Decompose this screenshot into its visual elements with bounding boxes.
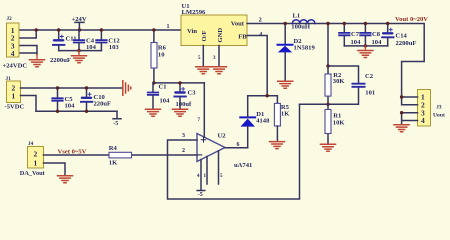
svg-text:1N5819: 1N5819	[294, 45, 316, 52]
svg-text:4148: 4148	[256, 118, 270, 125]
node junction output ground	[364, 44, 367, 47]
svg-text:O/F: O/F	[201, 31, 208, 42]
wire filter bottom rail	[59, 50, 102, 52]
svg-text:DA_Vout: DA_Vout	[20, 170, 46, 177]
node junction R2 rail	[326, 22, 329, 25]
pin number 2	[182, 148, 185, 154]
pin number 7	[198, 118, 201, 123]
svg-text:4: 4	[11, 49, 15, 58]
svg-text:C2: C2	[365, 73, 374, 80]
svg-text:-5: -5	[113, 121, 118, 127]
wire C7 C8 bottom rail	[344, 45, 387, 47]
regulator U1 LM2596	[181, 3, 247, 46]
svg-text:10K: 10K	[333, 120, 346, 127]
ground input filter	[72, 51, 87, 63]
wire J1 top rail	[21, 87, 123, 89]
svg-text:L1: L1	[293, 12, 301, 19]
svg-text:1K: 1K	[109, 160, 118, 167]
svg-text:6: 6	[237, 142, 240, 148]
pin number 4	[197, 174, 200, 179]
wire op-amp output pin6	[225, 147, 248, 149]
ground sideways J1	[123, 81, 131, 96]
svg-text:Vout 0~20V: Vout 0~20V	[395, 16, 428, 23]
capacitor C1 104	[148, 83, 170, 109]
svg-text:J1: J1	[6, 76, 12, 82]
svg-text:R4: R4	[109, 145, 118, 152]
pin number 5	[220, 174, 223, 179]
capacitor C10 220uF	[81, 88, 111, 111]
wire J3 pin1 pin2	[402, 97, 418, 105]
ground below D2	[278, 81, 293, 88]
pin number 1	[204, 174, 207, 179]
svg-text:3: 3	[182, 133, 185, 139]
ground output filter	[358, 46, 373, 58]
svg-text:J2: J2	[7, 16, 13, 22]
wire J3 pin3 pin4 to ground	[402, 113, 418, 124]
node junction C8	[364, 22, 367, 25]
wire FB net	[247, 36, 277, 104]
svg-text:C3: C3	[188, 90, 197, 97]
resistor R5 1K	[274, 103, 290, 140]
svg-text:+24V: +24V	[72, 16, 87, 23]
node junction C2 top	[326, 64, 329, 67]
ground below U1 pin3	[212, 67, 227, 74]
wire J4 pin2 to R4	[44, 154, 110, 156]
svg-text:Vin: Vin	[187, 28, 197, 35]
wire J1 bottom rail	[36, 110, 117, 112]
svg-text:GND: GND	[217, 28, 224, 43]
svg-text:C7: C7	[351, 31, 360, 38]
svg-text:2: 2	[182, 148, 185, 154]
svg-text:1: 1	[167, 24, 170, 30]
svg-text:LM2596: LM2596	[182, 9, 207, 16]
ground below J4	[58, 176, 73, 183]
svg-text:C1: C1	[159, 84, 167, 91]
svg-text:100uH: 100uH	[291, 24, 311, 31]
svg-text:30K: 30K	[333, 78, 346, 85]
connector J2	[7, 16, 20, 58]
svg-text:220uF: 220uF	[94, 101, 112, 108]
wire inverting input	[132, 154, 198, 156]
svg-text:J3: J3	[436, 105, 442, 111]
node junction C12	[100, 28, 103, 31]
svg-text:103: 103	[109, 44, 120, 51]
pin number 3	[182, 133, 185, 139]
svg-text:-5: -5	[198, 192, 203, 198]
node junction R6 top	[152, 28, 155, 31]
svg-text:104: 104	[65, 103, 76, 110]
ground below J2	[30, 55, 45, 67]
diode D2 1N5819	[278, 24, 316, 81]
wire J4 pin1 to ground	[44, 163, 66, 175]
inductor L1 100uH	[291, 12, 315, 30]
capacitor C11 2200uF	[50, 30, 77, 64]
node junction filter ground	[77, 49, 80, 52]
pin number 1 U1	[167, 24, 170, 30]
svg-text:uA741: uA741	[234, 162, 252, 169]
node junction C10 top	[85, 86, 88, 89]
svg-text:C14: C14	[396, 33, 408, 40]
wire op-amp pin5 stub	[218, 151, 220, 184]
wire J1 pin1 jog	[21, 96, 37, 112]
node junction D2	[284, 22, 287, 25]
capacitor C5 104	[52, 88, 75, 111]
node junction C10 bottom	[85, 110, 88, 113]
svg-text:U2: U2	[218, 133, 227, 140]
node junction J3 pin1	[400, 95, 403, 98]
wire +24V input rail	[19, 29, 181, 31]
resistor R4 1K	[109, 145, 132, 167]
capacitor C7 104	[339, 24, 361, 47]
svg-text:1: 1	[34, 159, 38, 168]
wire U1 pin3 stub	[218, 46, 220, 67]
wire feedback loop pin3	[168, 104, 300, 199]
svg-text:104: 104	[160, 98, 171, 105]
node junction +24V	[78, 28, 81, 31]
svg-text:101: 101	[365, 90, 375, 97]
node junction divider tap	[326, 103, 329, 106]
svg-text:C8: C8	[372, 31, 381, 38]
svg-text:Uout: Uout	[433, 113, 445, 119]
resistor R6 10	[151, 30, 167, 83]
connector J3	[418, 90, 445, 127]
diode D1 4148	[240, 96, 270, 148]
svg-text:2200uF: 2200uF	[396, 40, 417, 47]
pin number 5	[198, 56, 201, 61]
svg-text:2: 2	[259, 17, 262, 23]
ground below R1	[321, 144, 336, 151]
svg-text:Vout: Vout	[231, 21, 245, 28]
svg-text:2: 2	[34, 150, 38, 159]
net label +24VDC	[3, 62, 28, 69]
svg-text:J4: J4	[28, 141, 34, 147]
svg-text:10: 10	[158, 52, 165, 59]
pin number 4	[259, 32, 262, 38]
ground below J3	[394, 125, 409, 132]
capacitor C2 101	[328, 66, 375, 104]
node junction C5 top	[56, 86, 59, 89]
svg-text:1: 1	[12, 92, 16, 101]
svg-text:R6: R6	[158, 45, 167, 52]
wire op-amp pin7 supply stub	[203, 83, 205, 137]
resistor R2 30K	[325, 24, 345, 105]
node junction J2 rail	[35, 28, 38, 31]
power +24V symbol	[72, 16, 87, 30]
connector J1	[6, 76, 21, 103]
svg-text:100uf: 100uf	[176, 101, 193, 108]
pin number 3	[213, 56, 216, 61]
pin number 6	[237, 142, 240, 148]
ground below R5	[270, 142, 285, 149]
capacitor C12 103	[96, 30, 120, 51]
ground below U1 pin5	[196, 67, 211, 74]
resistor R1 10K	[325, 104, 345, 143]
wire J2 pin3/pin4 to ground	[19, 46, 37, 55]
ground below C3	[173, 109, 188, 116]
svg-text:2200uF: 2200uF	[50, 57, 71, 64]
net label DA_Vout	[20, 170, 46, 177]
node junction J3 pin3	[400, 111, 403, 114]
ground below C1	[146, 109, 161, 116]
capacitor C14 2200uF	[382, 24, 416, 48]
svg-text:FB: FB	[238, 34, 247, 41]
svg-text:C11: C11	[66, 36, 77, 43]
node junction C11	[57, 28, 60, 31]
svg-text:R1: R1	[333, 113, 341, 120]
wire divider tap to feedback	[300, 103, 329, 105]
svg-text:-5VDC: -5VDC	[5, 104, 25, 111]
op-amp supply rail wire	[154, 82, 204, 84]
wire Vout rail	[247, 24, 424, 98]
svg-text:1K: 1K	[281, 111, 290, 118]
node junction C14	[386, 22, 389, 25]
connector J4	[28, 141, 44, 168]
wire U1 pin5 stub	[202, 46, 204, 67]
net label Vout 0~20V	[395, 16, 428, 23]
wire J2 pin2 jog	[19, 30, 36, 38]
node junction C5 bottom	[56, 110, 59, 113]
pin number 2	[259, 17, 262, 23]
capacitor C3 100uf	[174, 83, 196, 109]
node junction C7	[343, 22, 346, 25]
capacitor C4 104	[74, 30, 97, 51]
svg-text:+24VDC: +24VDC	[3, 62, 28, 69]
node junction C1	[152, 81, 155, 84]
svg-text:104: 104	[351, 39, 362, 46]
op-amp U2 uA741	[197, 133, 252, 170]
net label Vset 0~5V	[58, 149, 87, 156]
svg-text:104: 104	[372, 39, 383, 46]
power -5 symbol	[113, 111, 121, 127]
net label -5VDC	[5, 104, 25, 111]
node junction FB	[266, 94, 269, 97]
node junction C3	[178, 81, 181, 84]
wire op-amp pin4 to -5	[197, 160, 205, 199]
wire op-amp pin1 stub	[206, 157, 208, 185]
svg-text:4: 4	[421, 116, 425, 125]
capacitor C8 104	[360, 24, 382, 47]
